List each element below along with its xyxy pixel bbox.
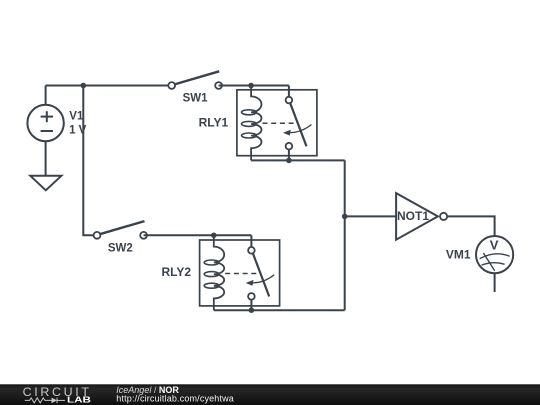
relay RLY2 switch lever [253,253,269,296]
voltage source V1 [27,86,63,176]
node junction dot RLY1 switch bottom [286,158,292,164]
wire top horizontal from V1 to SW1 [46,85,172,87]
ground [30,176,61,191]
svg-text:LAB: LAB [67,396,91,405]
switch SW1 [168,71,222,89]
wire VM1 bottom stub [494,273,496,292]
relay RLY1 switch terminals [286,97,293,104]
relay RLY1 box [237,90,317,156]
wire NOT1 output to VM1 [447,216,494,236]
svg-text:SW2: SW2 [108,243,133,255]
wire bus to NOT1 input [345,215,396,217]
relay RLY2 coil [214,235,224,310]
relay RLY2 switch bottom lead [250,300,252,311]
wire from SW1 to RLY1 [219,85,289,87]
svg-text:RLY2: RLY2 [162,265,192,279]
relay RLY1 switch lever [290,103,306,146]
svg-text:NOT1: NOT1 [397,209,429,223]
relay RLY1 arc arrow [287,125,312,133]
voltmeter VM1 [476,236,513,273]
switch SW2 [94,221,147,239]
inverter NOT1 [396,193,447,240]
relay RLY1 dashed actuation line [263,122,298,124]
node junction dot RLY2 coil top [211,233,217,239]
node junction dot bus to NOT1 [342,214,348,220]
wire from SW2 to RLY2 [144,234,252,236]
relay RLY1 coil [251,86,261,161]
relay RLY2 switch terminals [248,247,255,254]
wire RLY2 bottom horizontal [214,309,345,311]
wire RLY1 bottom horizontal [251,159,345,161]
relay RLY2 dashed actuation line [225,273,260,275]
svg-text:SW1: SW1 [183,93,209,105]
node junction dot at V1 top wire [81,83,87,89]
wire right vertical bus [344,160,346,310]
svg-text:http://circuitlab.com/cyehtwa: http://circuitlab.com/cyehtwa [116,393,234,403]
voltage source V1 value label "V1 / 1 V" [69,111,87,137]
relay RLY2 arc arrow [249,275,274,283]
relay RLY1 switch bottom lead [288,150,290,161]
svg-text:V: V [490,238,499,253]
svg-text:V1: V1 [69,111,84,123]
wire vertical bus from node at V1 down to SW2 [83,86,97,236]
node junction dot RLY2 switch bottom [249,307,255,313]
node junction dot RLY1 coil top [248,83,254,89]
wire RLY1 switch common lead down [288,86,290,98]
svg-text:RLY1: RLY1 [199,116,229,130]
svg-text:VM1: VM1 [446,247,471,261]
relay RLY1 [237,86,317,161]
relay RLY2 [200,235,280,310]
CircuitLab logo resistor-diode squiggle [25,398,65,404]
relay RLY2 box [200,240,280,306]
wire RLY2 switch common lead down [250,235,252,247]
